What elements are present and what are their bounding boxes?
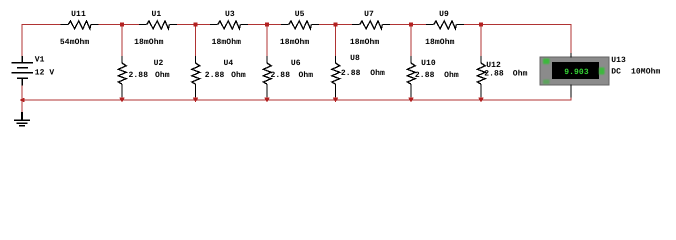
node bottom junction 6 (arrow) [478, 98, 484, 103]
wire battery negative to bottom rail corner [21, 85, 23, 100]
svg-text:18mOhm: 18mOhm [425, 38, 455, 47]
wire shunt branch 2 top [195, 25, 197, 57]
multimeter U13 side indicator [599, 68, 605, 75]
svg-text:U5: U5 [295, 10, 305, 19]
multimeter U13 minus terminal mark [543, 80, 550, 85]
multimeter U13 display [552, 62, 599, 79]
node bottom junction 3 (arrow) [264, 98, 270, 103]
svg-text:U9: U9 [439, 10, 449, 19]
svg-text:54mOhm: 54mOhm [60, 38, 90, 47]
node top junction 3 [265, 23, 269, 27]
svg-text:2.88: 2.88 [205, 71, 225, 80]
wire shunt branch 1 top [121, 25, 123, 57]
svg-text:Ohm: Ohm [370, 69, 385, 78]
svg-text:Ohm: Ohm [231, 71, 246, 80]
svg-text:18mOhm: 18mOhm [134, 38, 164, 47]
multimeter U13 lead top [570, 53, 572, 58]
multimeter U13 body [540, 57, 609, 85]
svg-text:Ohm: Ohm [444, 71, 459, 80]
battery V1 12 V [12, 56, 34, 86]
wire shunt branch 5 top [410, 25, 412, 57]
svg-text:U11: U11 [71, 10, 86, 19]
wire top rail (node into branches) [22, 24, 61, 26]
svg-text:V1: V1 [35, 56, 45, 65]
svg-text:18mOhm: 18mOhm [280, 38, 310, 47]
resistor U8 2.88 Ohm (shunt) [332, 56, 340, 97]
wire shunt branch 1 bottom tip [121, 97, 123, 101]
wire shunt branch 4 bottom tip [335, 97, 337, 101]
svg-text:Ohm: Ohm [513, 69, 528, 78]
svg-text:U13: U13 [611, 56, 626, 65]
node bottom junction 4 (arrow) [333, 98, 339, 103]
svg-text:2.88: 2.88 [341, 69, 361, 78]
svg-text:U10: U10 [421, 59, 436, 68]
wire shunt branch 2 bottom tip [195, 97, 197, 101]
svg-text:Ohm: Ohm [155, 71, 170, 80]
node top junction 1 [120, 23, 124, 27]
multimeter U13 lead bottom [570, 85, 572, 98]
svg-text:U8: U8 [350, 54, 360, 63]
svg-text:10MOhm: 10MOhm [631, 67, 661, 76]
resistor U5 18mOhm (series) [281, 21, 319, 29]
multimeter U13 plus terminal mark [543, 59, 550, 65]
svg-text:12 V: 12 V [35, 68, 55, 77]
resistor U9 18mOhm (series) [426, 21, 464, 29]
svg-text:Ohm: Ohm [299, 71, 314, 80]
node top junction 2 [194, 23, 198, 27]
resistor U3 18mOhm (series) [210, 21, 248, 29]
wire shunt branch 6 bottom tip [480, 97, 482, 101]
svg-text:2.88: 2.88 [484, 69, 504, 78]
node top junction 6 [479, 23, 483, 27]
svg-text:2.88: 2.88 [129, 71, 149, 80]
wire multimeter bottom to bottom rail [570, 97, 572, 101]
wire left vertical from top rail to battery [21, 24, 23, 57]
wire shunt branch 6 top [480, 25, 482, 57]
svg-text:2.88: 2.88 [271, 71, 291, 80]
wire shunt branch 5 bottom tip [410, 97, 412, 101]
resistor U6 2.88 Ohm (shunt) [263, 56, 271, 97]
wire shunt branch 4 top [335, 25, 337, 57]
svg-text:U3: U3 [225, 10, 235, 19]
resistor U4 2.88 Ohm (shunt) [192, 56, 200, 97]
wire shunt branch 3 top [266, 25, 268, 57]
wire ground feed [21, 100, 23, 113]
svg-text:DC: DC [611, 67, 621, 76]
svg-text:U7: U7 [364, 10, 374, 19]
ground [14, 112, 30, 126]
resistor U12 2.88 Ohm (shunt) [477, 56, 485, 97]
node bottom-left corner junction (arrow) [19, 98, 24, 103]
svg-text:U4: U4 [224, 59, 234, 68]
resistor U2 2.88 Ohm (shunt) [118, 56, 126, 97]
svg-text:U1: U1 [151, 10, 161, 19]
svg-text:2.88: 2.88 [415, 71, 435, 80]
node top junction 5 [409, 23, 413, 27]
resistor U11 54mOhm (series) [61, 21, 99, 29]
node bottom junction 2 (arrow) [193, 98, 199, 103]
wire right vertical from top rail to multimeter [570, 24, 572, 53]
svg-text:18mOhm: 18mOhm [350, 38, 380, 47]
svg-text:9.903: 9.903 [564, 68, 589, 77]
wire bottom rail (ground bus) [22, 99, 571, 101]
wire shunt branch 3 bottom tip [266, 97, 268, 101]
svg-text:U6: U6 [291, 59, 301, 68]
node top junction 4 [334, 23, 338, 27]
svg-text:18mOhm: 18mOhm [212, 38, 242, 47]
node bottom junction 1 (arrow) [119, 98, 125, 103]
resistor U1 18mOhm (series) [139, 21, 177, 29]
resistor U10 2.88 Ohm (shunt) [407, 56, 415, 97]
svg-text:U2: U2 [154, 59, 164, 68]
resistor U7 18mOhm (series) [352, 21, 390, 29]
node bottom junction 5 (arrow) [408, 98, 414, 103]
